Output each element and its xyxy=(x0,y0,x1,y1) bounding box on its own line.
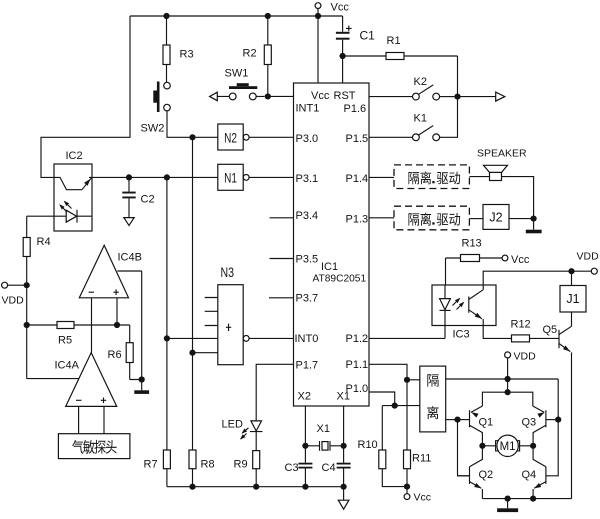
ground right of J2 xyxy=(531,216,537,222)
svg-text:R5: R5 xyxy=(58,335,72,347)
resistor R1 xyxy=(343,55,458,57)
svg-text:X1: X1 xyxy=(317,423,330,435)
resistor R5 xyxy=(24,322,30,328)
svg-text:C2: C2 xyxy=(141,194,155,206)
svg-text:IC2: IC2 xyxy=(66,150,83,162)
svg-text:LED: LED xyxy=(222,419,243,431)
relay contact K1 xyxy=(440,97,458,138)
svg-text:Vcc: Vcc xyxy=(311,90,330,102)
svg-text:Q3: Q3 xyxy=(522,417,537,429)
resistor R10 xyxy=(381,406,383,450)
svg-text:R10: R10 xyxy=(358,439,378,451)
isolator box 隔离 (vertical) xyxy=(420,366,446,432)
isolator upper output rail xyxy=(446,378,559,380)
svg-text:M1: M1 xyxy=(500,441,516,453)
capacitor C4 xyxy=(343,446,345,487)
resistor R8 xyxy=(189,450,196,469)
wire isolator lower output xyxy=(446,419,458,421)
svg-text:K1: K1 xyxy=(414,113,427,125)
svg-text:INT0: INT0 xyxy=(295,333,319,345)
wire speaker to ground net xyxy=(502,177,534,219)
svg-text:VDD: VDD xyxy=(514,351,537,363)
svg-text:Vcc: Vcc xyxy=(414,492,432,504)
stub P3.4 xyxy=(270,217,294,219)
relay contact K2 xyxy=(369,96,413,98)
output arrow right xyxy=(458,96,496,98)
motor M1 xyxy=(479,443,485,449)
svg-text:Q1: Q1 xyxy=(479,417,494,429)
svg-text:Q5: Q5 xyxy=(543,324,558,336)
svg-text:SW1: SW1 xyxy=(225,68,249,80)
power VDD bridge xyxy=(505,352,511,358)
relay J1 xyxy=(560,286,586,313)
svg-text:R9: R9 xyxy=(234,459,248,471)
svg-text:J1: J1 xyxy=(566,292,579,306)
resistor R7 xyxy=(163,450,170,469)
svg-text:R8: R8 xyxy=(201,459,215,471)
svg-text:P1.3: P1.3 xyxy=(346,214,369,226)
wire P1.1 line down to R11 xyxy=(406,380,408,450)
svg-text:X1: X1 xyxy=(337,391,350,403)
wire R1 down to K junction xyxy=(457,56,459,97)
inverter N2 xyxy=(218,124,243,150)
power VDD left xyxy=(2,282,8,288)
svg-text:RST: RST xyxy=(334,90,356,102)
svg-text:R11: R11 xyxy=(412,453,431,465)
svg-text:X2: X2 xyxy=(298,391,311,403)
svg-text:AT89C2051: AT89C2051 xyxy=(313,274,367,285)
wire bridge bottom rail xyxy=(482,498,533,500)
svg-text:P1.5: P1.5 xyxy=(346,133,369,145)
wire P1.0 to isolator and R10 xyxy=(369,392,395,406)
sensor box 气敏探头 xyxy=(58,434,129,459)
wire bridge top rail xyxy=(507,379,509,392)
svg-text:IC3: IC3 xyxy=(453,329,470,341)
resistor R3 xyxy=(163,13,169,19)
ground under C4 (open triangle) xyxy=(343,487,345,501)
wire VDD node down to IC4A xyxy=(27,285,79,378)
node K junction xyxy=(454,94,460,100)
inverter N1 xyxy=(218,164,243,190)
optocoupler IC3 xyxy=(432,285,496,326)
svg-text:P1.1: P1.1 xyxy=(346,359,369,371)
wire P1.2 to IC3 LED xyxy=(369,326,445,339)
stub P3.7 xyxy=(269,297,294,299)
svg-text:C1: C1 xyxy=(360,29,376,43)
svg-text:IC1: IC1 xyxy=(321,261,338,273)
svg-text:N1: N1 xyxy=(224,170,237,186)
svg-text:K2: K2 xyxy=(414,76,427,88)
ground near R6 xyxy=(141,380,143,391)
svg-text:R2: R2 xyxy=(243,48,257,60)
capacitor C2 xyxy=(126,174,132,180)
svg-text:R7: R7 xyxy=(144,459,158,471)
capacitor C3 xyxy=(304,446,306,487)
svg-text:R6: R6 xyxy=(108,349,122,361)
wire P1.1 to isolator xyxy=(369,364,407,380)
svg-text:SW2: SW2 xyxy=(141,123,165,135)
power Vcc bottom xyxy=(406,487,408,494)
wire X2 pin down xyxy=(304,406,306,446)
resistor R9 xyxy=(253,451,260,469)
wire net A (SW2 net down to R8) xyxy=(192,137,194,450)
driver box 隔离.驱动 (P1.3) xyxy=(369,217,394,219)
wire C1 to RST xyxy=(340,53,346,59)
power Vcc top xyxy=(315,3,321,9)
resistor R4 xyxy=(27,215,54,217)
wire IC3 emitter to R12 xyxy=(483,326,511,339)
resistor R11 xyxy=(404,450,411,469)
bottom wire xyxy=(167,486,344,488)
wire SW2 to N2 xyxy=(167,111,218,137)
svg-text:IC4A: IC4A xyxy=(55,360,80,372)
svg-text:Q2: Q2 xyxy=(479,469,494,481)
svg-text:P3.5: P3.5 xyxy=(296,254,319,266)
resistor R12 xyxy=(512,335,530,342)
driver box 隔离.驱动 (P1.4) xyxy=(369,176,394,178)
svg-text:R13: R13 xyxy=(462,238,482,250)
svg-text:VDD: VDD xyxy=(2,295,25,307)
svg-text:P3.7: P3.7 xyxy=(296,293,319,305)
wire net B to N3 input xyxy=(164,335,170,341)
op-amp IC4A xyxy=(66,353,117,407)
svg-text:P3.0: P3.0 xyxy=(296,133,319,145)
svg-text:R3: R3 xyxy=(180,49,194,61)
resistor R2 xyxy=(265,13,271,19)
svg-text:N3: N3 xyxy=(221,264,235,280)
relay J2 xyxy=(469,218,483,220)
capacitor C1 xyxy=(342,16,344,56)
wire R13 to IC3 anode xyxy=(445,258,447,285)
stub P3.5 xyxy=(270,258,294,260)
IC U1 AT89C2051 xyxy=(294,83,370,406)
svg-text:Vcc: Vcc xyxy=(511,254,530,266)
svg-text:Q4: Q4 xyxy=(522,469,537,481)
wire right base column xyxy=(546,379,558,476)
svg-text:IC4B: IC4B xyxy=(118,252,142,264)
svg-text:P3.1: P3.1 xyxy=(296,173,319,185)
ground under C2 (open triangle) xyxy=(124,218,134,226)
wire IC2 to N1 (P3.1 net) xyxy=(92,176,218,178)
svg-text:INT1: INT1 xyxy=(296,103,320,115)
optocoupler IC2 xyxy=(54,164,92,231)
wire net B (IC2 output down to R7) xyxy=(164,174,170,180)
svg-text:Vcc: Vcc xyxy=(331,2,350,14)
wire rail drop to IC2 collector xyxy=(41,16,130,177)
svg-text:SPEAKER: SPEAKER xyxy=(477,148,527,160)
svg-text:C3: C3 xyxy=(285,462,299,474)
svg-text:J2: J2 xyxy=(489,211,502,225)
wire top Vcc rail xyxy=(130,15,343,17)
speaker SPEAKER xyxy=(469,176,489,178)
svg-text:P1.7: P1.7 xyxy=(296,360,319,372)
svg-text:R4: R4 xyxy=(37,236,51,248)
svg-text:N2: N2 xyxy=(224,130,237,146)
comparator N3 xyxy=(218,285,243,365)
svg-text:R1: R1 xyxy=(387,35,401,47)
ground bridge xyxy=(507,499,509,509)
LED indicator xyxy=(251,421,262,431)
svg-text:VDD: VDD xyxy=(577,251,600,263)
wire left base column xyxy=(458,420,470,476)
power Vcc (R13) xyxy=(502,255,508,261)
svg-text:P1.4: P1.4 xyxy=(346,173,369,185)
svg-text:P1.2: P1.2 xyxy=(346,333,369,345)
op-amp IC4B xyxy=(79,245,128,297)
resistor R6 xyxy=(130,325,142,380)
wire X1 pin down xyxy=(343,406,345,446)
wire net A to N3 input xyxy=(189,350,195,356)
wire VDD rail to IC3 collector and J1 xyxy=(483,271,591,285)
node SW1/R2 junction to INT1 xyxy=(265,93,271,99)
svg-text:P1.6: P1.6 xyxy=(344,103,367,115)
power VDD top right xyxy=(591,268,597,274)
switch SW1 xyxy=(210,92,218,101)
svg-text:R12: R12 xyxy=(511,319,531,331)
wire P1.7 down xyxy=(256,364,293,421)
N3 output to INT0 xyxy=(243,336,249,342)
svg-text:P3.4: P3.4 xyxy=(296,210,319,222)
svg-text:C4: C4 xyxy=(322,462,336,474)
push button SW2 xyxy=(164,82,171,89)
